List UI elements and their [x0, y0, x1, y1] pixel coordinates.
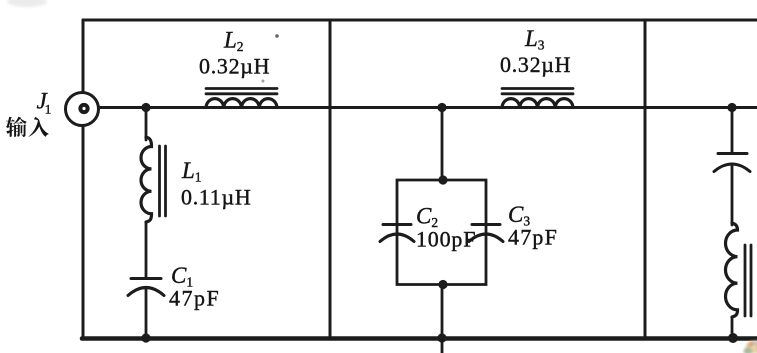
svg-text:J1: J1 — [37, 89, 52, 117]
svg-text:L2: L2 — [223, 28, 244, 55]
inductor L2 coil — [206, 99, 277, 108]
capacitor C1 — [128, 279, 164, 296]
wire: C2/C3 parallel block frame — [397, 180, 486, 285]
inductor L4 core lines — [745, 245, 751, 316]
svg-text:47pF: 47pF — [508, 225, 558, 250]
shield enclosure bottom ground bus — [82, 336, 757, 341]
wire: block to ground bus — [441, 285, 444, 339]
wire: junction down to right capacitor — [731, 108, 734, 153]
shield enclosure top wall — [83, 19, 757, 22]
svg-text:47pF: 47pF — [169, 286, 220, 311]
wire: junction down to C2/C3 block — [441, 108, 444, 181]
node: block top junction — [438, 175, 447, 184]
coax connector J1 — [66, 93, 99, 126]
shield enclosure left wall — [82, 20, 85, 338]
node: input junction — [141, 103, 150, 112]
node: C1 ground junction — [141, 333, 150, 342]
node: right branch top junction — [727, 103, 736, 112]
wire: L4 to ground bus — [731, 317, 734, 338]
main signal wire from J1 pin to output — [86, 106, 757, 109]
shield partition wall 1 — [329, 20, 332, 338]
scan speck above L2 core — [262, 80, 265, 83]
scan smudge top left — [7, 0, 47, 7]
capacitor C3 — [469, 225, 503, 242]
label 输入 (input) — [6, 117, 49, 137]
wire: right capacitor to L4 — [731, 165, 734, 226]
inductor L4 coil (right section, unlabeled) — [726, 223, 738, 317]
capacitor C2 — [380, 225, 414, 242]
svg-text:0.11µH: 0.11µH — [181, 185, 251, 210]
svg-text:0.32µH: 0.32µH — [199, 54, 270, 79]
wire: junction down to L1 — [145, 108, 148, 141]
shield partition wall 2 — [644, 20, 647, 338]
svg-text:0.32µH: 0.32µH — [500, 52, 571, 77]
capacitor C4 (right section, unlabeled) — [714, 154, 750, 172]
wire: ground stub below bus — [441, 338, 444, 353]
inductor L3 core lines — [502, 89, 573, 94]
node: right ground junction — [728, 333, 738, 343]
watermark star bottom right — [744, 341, 757, 353]
inductor L2 core lines — [206, 89, 277, 94]
svg-text:L3: L3 — [524, 26, 545, 53]
node: middle ground junction — [437, 333, 446, 342]
wire: L1 to C1 — [145, 222, 148, 277]
inductor L1 core lines — [160, 146, 166, 216]
svg-text:100pF: 100pF — [416, 227, 476, 252]
inductor L3 coil — [502, 99, 573, 108]
node: block bottom junction — [438, 280, 447, 289]
wire: C1 to ground bus — [145, 289, 148, 339]
svg-text:L1: L1 — [181, 158, 202, 185]
scan speck near L2 — [275, 34, 279, 38]
node: middle branch top junction — [437, 103, 446, 112]
inductor L1 coil — [141, 137, 152, 222]
